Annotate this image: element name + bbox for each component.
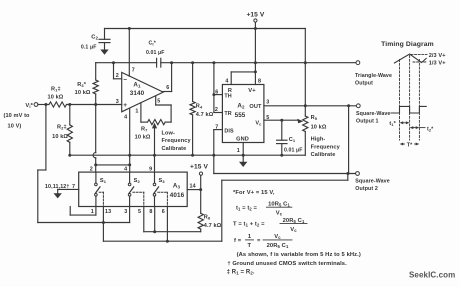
- svg-text:Timing Diagram: Timing Diagram: [381, 41, 434, 48]
- svg-text:T: T: [247, 243, 251, 249]
- svg-text:R2‡: R2‡: [57, 125, 67, 131]
- svg-text:*For V+ = 15 V,: *For V+ = 15 V,: [233, 190, 275, 196]
- svg-text:2/3 V+: 2/3 V+: [429, 53, 447, 59]
- svg-text:R7: R7: [141, 126, 148, 132]
- svg-text:f =: f =: [234, 238, 242, 244]
- svg-text:5: 5: [266, 115, 269, 121]
- svg-text:Vi*: Vi*: [25, 103, 33, 109]
- svg-text:DIS: DIS: [224, 128, 234, 134]
- svg-text:Calibrate: Calibrate: [162, 146, 187, 152]
- svg-text:+: +: [123, 102, 127, 109]
- svg-text:R4: R4: [196, 104, 203, 110]
- svg-text:Vc: Vc: [276, 210, 283, 216]
- svg-text:2: 2: [90, 167, 93, 173]
- svg-text:10 kΩ: 10 kΩ: [135, 135, 151, 141]
- svg-text:Output 1: Output 1: [356, 119, 379, 125]
- svg-text:TH: TH: [224, 94, 231, 100]
- svg-text:C2: C2: [91, 35, 98, 41]
- svg-text:4: 4: [124, 167, 127, 173]
- svg-text:High-: High-: [311, 137, 326, 143]
- svg-text:S1: S1: [100, 178, 107, 184]
- svg-text:2: 2: [215, 107, 218, 113]
- svg-text:4: 4: [124, 115, 127, 121]
- svg-text:1: 1: [237, 148, 240, 154]
- svg-text:T = t1 + t2 =: T = t1 + t2 =: [233, 222, 265, 228]
- svg-text:Triangle-Wave: Triangle-Wave: [355, 73, 392, 79]
- svg-text:8: 8: [149, 209, 152, 215]
- svg-text:Frequency: Frequency: [311, 144, 341, 150]
- svg-text:10R5 C1: 10R5 C1: [268, 201, 290, 207]
- svg-text:10 kΩ: 10 kΩ: [311, 124, 327, 130]
- svg-text:+15 V: +15 V: [246, 12, 264, 19]
- svg-text:Ct*: Ct*: [149, 41, 157, 47]
- svg-text:SeekIC.com: SeekIC.com: [409, 271, 455, 280]
- svg-text:Vc: Vc: [290, 227, 297, 233]
- svg-text:T*: T*: [407, 142, 413, 148]
- svg-text:10 kΩ: 10 kΩ: [48, 95, 64, 101]
- svg-text:1: 1: [91, 209, 94, 215]
- svg-text:1/3 V+: 1/3 V+: [429, 61, 447, 67]
- svg-text:C1: C1: [289, 137, 296, 143]
- svg-text:6: 6: [215, 90, 218, 96]
- svg-text:4.7 kΩ: 4.7 kΩ: [204, 223, 222, 229]
- svg-text:S2: S2: [134, 178, 141, 184]
- svg-text:(10 mV to: (10 mV to: [4, 113, 31, 119]
- svg-text:R1‡: R1‡: [51, 86, 61, 92]
- svg-text:2: 2: [116, 73, 119, 79]
- svg-text:† Ground unused CMOS switch te: † Ground unused CMOS switch terminals.: [227, 261, 347, 267]
- svg-text:OUT: OUT: [249, 104, 262, 110]
- svg-text:10 kΩ: 10 kΩ: [75, 90, 91, 96]
- svg-text:6: 6: [166, 85, 169, 91]
- svg-text:13: 13: [105, 209, 111, 215]
- svg-text:(As shown, f is variable from: (As shown, f is variable from 5 Hz to 5 …: [237, 252, 361, 258]
- svg-text:Vc: Vc: [255, 120, 262, 126]
- svg-text:Output: Output: [355, 81, 373, 87]
- svg-text:GND: GND: [236, 137, 249, 143]
- svg-text:3140: 3140: [130, 90, 145, 97]
- svg-text:‡ R1 = R2.: ‡ R1 = R2.: [227, 270, 255, 276]
- svg-text:555: 555: [235, 112, 246, 119]
- svg-text:Output 2: Output 2: [355, 186, 378, 192]
- svg-text:4: 4: [225, 78, 228, 84]
- svg-text:Calibrate: Calibrate: [311, 152, 336, 158]
- svg-text:Vc: Vc: [274, 234, 281, 240]
- svg-text:t1 = t2 =: t1 = t2 =: [236, 206, 258, 212]
- svg-text:t2*: t2*: [427, 127, 434, 133]
- svg-text:3: 3: [266, 99, 269, 105]
- svg-text:10 kΩ: 10 kΩ: [52, 134, 68, 140]
- svg-text:A2: A2: [237, 103, 245, 110]
- svg-text:Square-Wave: Square-Wave: [355, 178, 389, 184]
- svg-text:7: 7: [72, 184, 75, 190]
- svg-text:20R5 C1: 20R5 C1: [267, 243, 289, 249]
- svg-text:10,11,12†: 10,11,12†: [45, 184, 70, 190]
- svg-text:R3*: R3*: [77, 82, 86, 88]
- svg-text:Frequency: Frequency: [162, 138, 192, 144]
- svg-text:7: 7: [132, 68, 135, 74]
- svg-text:Square-Wave: Square-Wave: [356, 111, 390, 117]
- svg-text:S3: S3: [159, 178, 166, 184]
- svg-text:0.01 μF: 0.01 μF: [284, 148, 303, 154]
- svg-text:A3: A3: [173, 182, 181, 189]
- svg-text:5: 5: [157, 99, 160, 105]
- svg-text:+15 V: +15 V: [190, 164, 208, 171]
- svg-text:R5: R5: [311, 115, 318, 121]
- svg-text:=: =: [257, 238, 261, 244]
- svg-text:V+: V+: [248, 88, 256, 94]
- svg-text:A1: A1: [133, 82, 141, 89]
- svg-text:6: 6: [162, 209, 165, 215]
- svg-text:8: 8: [258, 78, 261, 84]
- svg-text:1: 1: [135, 108, 138, 114]
- svg-text:3: 3: [124, 209, 127, 215]
- svg-text:Low-: Low-: [162, 131, 175, 137]
- svg-text:0.1 μF: 0.1 μF: [81, 45, 97, 51]
- svg-text:4016: 4016: [170, 192, 185, 199]
- svg-text:20R5 C1: 20R5 C1: [283, 218, 305, 224]
- svg-text:TR: TR: [224, 111, 231, 117]
- svg-text:t1*: t1*: [389, 121, 396, 127]
- svg-text:0.01 μF: 0.01 μF: [146, 50, 165, 56]
- svg-text:5: 5: [138, 209, 141, 215]
- svg-text:R6: R6: [204, 215, 211, 221]
- svg-text:7: 7: [215, 124, 218, 130]
- svg-text:14: 14: [190, 184, 196, 190]
- svg-text:9: 9: [149, 167, 152, 173]
- svg-text:4.7 kΩ: 4.7 kΩ: [196, 112, 214, 118]
- svg-text:−: −: [123, 76, 127, 83]
- svg-text:10 V): 10 V): [8, 123, 22, 129]
